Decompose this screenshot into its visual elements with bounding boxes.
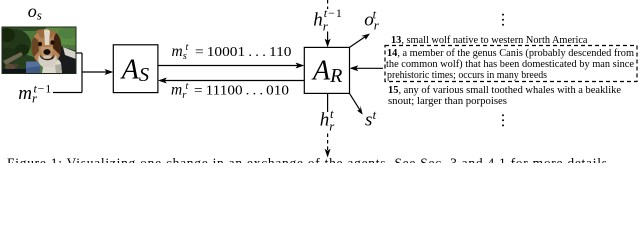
node o_s label: [28, 1, 42, 22]
svg-text:snout; larger than porpoises: snout; larger than porpoises: [388, 95, 507, 107]
agent box A_R: [304, 47, 349, 93]
gloss line 13: [391, 34, 588, 46]
vertical dots bottom: [502, 114, 504, 126]
label s_t: [365, 108, 377, 131]
label m_s = 10001...110: [172, 42, 292, 62]
arrow A_R to s_t: [350, 93, 363, 114]
label h_r(t-1): [313, 6, 343, 34]
dog body black/white: [50, 45, 76, 74]
label o_r(t): [364, 7, 380, 32]
arrow into A_S: [82, 69, 113, 75]
svg-text:t: t: [330, 107, 334, 121]
wire m_r (A_R to A_S): [158, 78, 304, 84]
vertical dots top (gloss list continues): [502, 14, 504, 26]
svg-text:t−1: t−1: [34, 82, 53, 96]
agent box A_S: [113, 45, 158, 93]
svg-text:t: t: [186, 81, 189, 92]
wire image to junction: [76, 52, 82, 54]
label m_r = 11100...010: [171, 81, 289, 101]
dashed recurrent wire top: [327, 0, 329, 9]
wire A_R bottom to h_r: [327, 93, 329, 112]
svg-text:t−1: t−1: [324, 6, 343, 20]
svg-text:13, small wolf native to weste: 13, small wolf native to western North A…: [391, 34, 588, 46]
wire junction vertical: [81, 53, 83, 93]
svg-text:Figure 1: Visualizing one cha: Figure 1: Visualizing one change in an e…: [7, 156, 607, 164]
arrow A_R to o_r: [350, 34, 371, 48]
dog photo (observation image): [0, 27, 78, 74]
wire m_s (A_S to A_R): [158, 63, 304, 69]
svg-text:t: t: [186, 42, 189, 53]
svg-text:t: t: [373, 108, 377, 122]
arrow gloss box into A_R right: [350, 65, 384, 71]
svg-text:= 10001 . . . 110: = 10001 . . . 110: [195, 44, 292, 59]
label m_r(t-1): [18, 82, 52, 106]
arrow h_r(t-1) into A_R top: [325, 32, 331, 48]
dashed recurrent wire bottom: [325, 134, 331, 158]
svg-text:prehistoric times; occurs in m: prehistoric times; occurs in many breeds: [387, 69, 547, 81]
wire m_r(t-1) to junction: [53, 92, 82, 94]
dog head: [32, 29, 61, 65]
svg-text:t: t: [373, 7, 377, 21]
svg-text:= 11100 . . . 010: = 11100 . . . 010: [194, 82, 289, 97]
svg-text:s: s: [365, 110, 372, 131]
label h_r(t): [320, 107, 336, 134]
dashed target gloss box: [385, 46, 637, 82]
